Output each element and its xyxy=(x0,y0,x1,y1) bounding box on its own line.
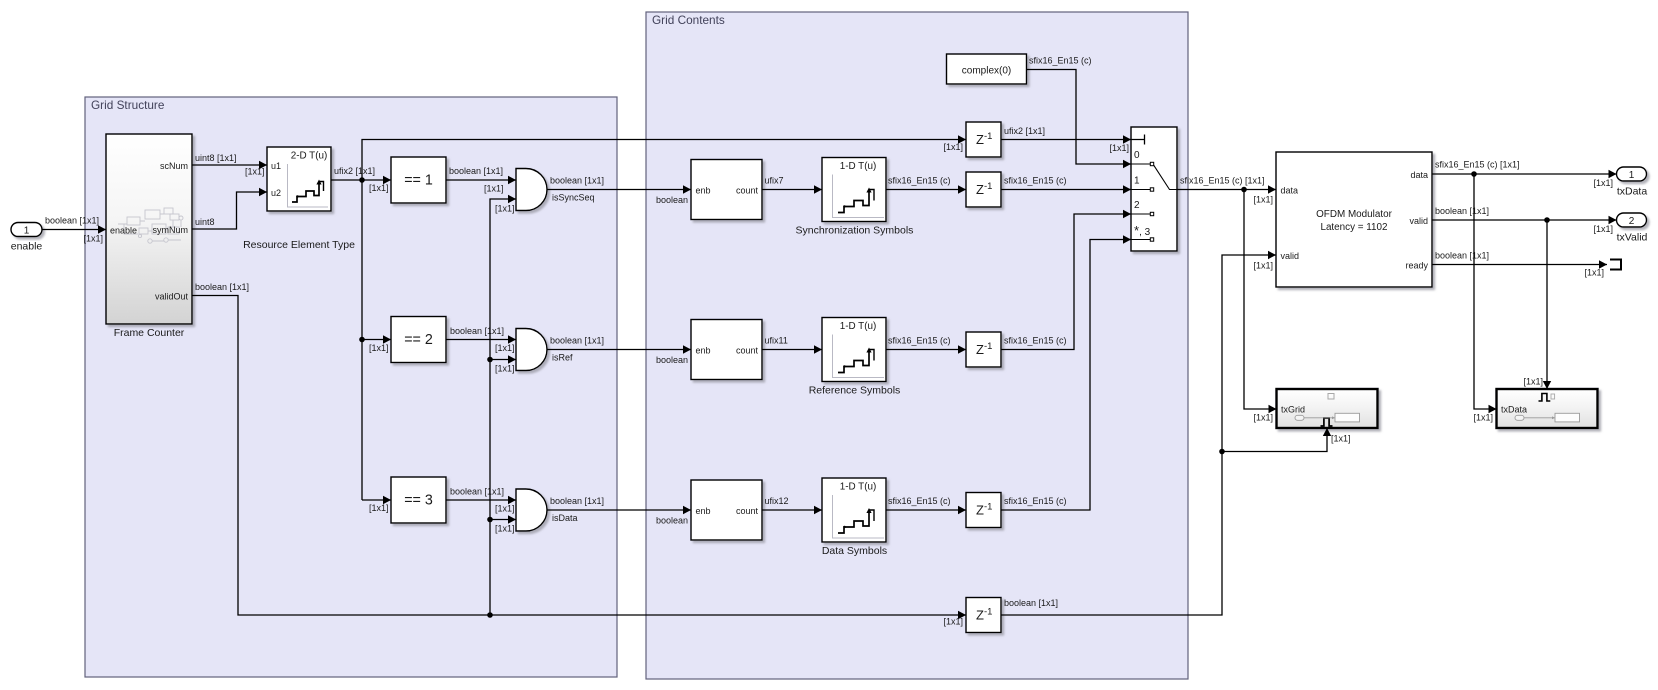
svg-text:boolean [1x1]: boolean [1x1] xyxy=(550,336,604,346)
scope txData xyxy=(1497,389,1598,428)
svg-text:boolean [1x1]: boolean [1x1] xyxy=(550,496,604,506)
svg-text:Grid Structure: Grid Structure xyxy=(91,98,165,112)
block Resource Element Type 2-D T(u) xyxy=(243,147,355,251)
svg-text:complex(0): complex(0) xyxy=(962,65,1011,76)
AND gate isData xyxy=(516,489,547,531)
svg-text:[1x1]: [1x1] xyxy=(943,617,963,627)
wire OFDM valid to txValid outport xyxy=(1432,206,1617,234)
svg-text:sfix16_En15 (c): sfix16_En15 (c) xyxy=(888,176,951,186)
scope txGrid xyxy=(1277,389,1378,428)
block multiport switch xyxy=(1131,127,1177,251)
svg-text:1-D T(u): 1-D T(u) xyxy=(840,321,877,332)
svg-text:ufix12: ufix12 xyxy=(765,496,789,506)
svg-text:sfix16_En15 (c): sfix16_En15 (c) xyxy=(888,496,951,506)
outport 1 txData xyxy=(1617,167,1648,198)
svg-text:count: count xyxy=(736,506,759,516)
svg-text:boolean [1x1]: boolean [1x1] xyxy=(1004,598,1058,608)
svg-text:boolean: boolean xyxy=(656,195,688,205)
svg-text:sfix16_En15 (c): sfix16_En15 (c) xyxy=(888,336,951,346)
wire enable to Frame Counter xyxy=(42,216,106,244)
svg-text:txData: txData xyxy=(1501,405,1527,415)
svg-text:Grid Contents: Grid Contents xyxy=(652,13,725,27)
wire valid branch to txGrid trigger xyxy=(1222,428,1351,452)
block counter (ref) enb/count xyxy=(691,320,762,380)
wire switch output to OFDM data input xyxy=(1177,176,1276,205)
svg-text:2-D T(u): 2-D T(u) xyxy=(291,150,328,161)
block lookup Data Symbols 1-D T(u) xyxy=(822,478,886,542)
svg-text:boolean: boolean xyxy=(656,355,688,365)
block unit delay Z-1 (valid) xyxy=(966,598,1001,633)
block constant complex(0) xyxy=(947,54,1027,84)
svg-text:1-D T(u): 1-D T(u) xyxy=(840,481,877,492)
svg-text:uint8 [1x1]: uint8 [1x1] xyxy=(195,153,237,163)
svg-text:boolean [1x1]: boolean [1x1] xyxy=(195,282,249,292)
inport 1 enable xyxy=(11,223,43,253)
svg-text:u2: u2 xyxy=(271,188,281,198)
svg-text:[1x1]: [1x1] xyxy=(495,343,515,353)
svg-text:uint8: uint8 xyxy=(195,217,215,227)
wire ref delay to switch port 2 xyxy=(1001,210,1131,350)
svg-text:count: count xyxy=(736,185,759,195)
svg-text:[1x1]: [1x1] xyxy=(1109,143,1129,153)
svg-text:sfix16_En15 (c): sfix16_En15 (c) xyxy=(1004,336,1067,346)
svg-text:isData: isData xyxy=(552,513,578,523)
svg-text:valid: valid xyxy=(1281,251,1300,261)
svg-text:OFDM Modulator: OFDM Modulator xyxy=(1316,209,1392,220)
svg-text:0: 0 xyxy=(1134,150,1140,161)
wire switch output branch to txGrid xyxy=(1244,190,1277,423)
wire == 3 output to AND gate xyxy=(446,487,516,514)
wire data lookup to delay xyxy=(886,496,966,514)
svg-text:symNum: symNum xyxy=(153,225,189,235)
svg-text:isSyncSeq: isSyncSeq xyxy=(552,193,595,203)
wire counter ufix7 to sync lookup xyxy=(762,176,822,194)
svg-text:boolean [1x1]: boolean [1x1] xyxy=(1435,206,1489,216)
svg-text:1-D T(u): 1-D T(u) xyxy=(840,161,877,172)
svg-text:1: 1 xyxy=(1134,176,1140,187)
svg-text:[1x1]: [1x1] xyxy=(1253,195,1273,205)
wire counter ufix12 to data lookup xyxy=(762,496,822,514)
svg-text:[1x1]: [1x1] xyxy=(1523,377,1543,387)
svg-text:[1x1]: [1x1] xyxy=(1253,261,1273,271)
svg-text:boolean [1x1]: boolean [1x1] xyxy=(450,487,504,497)
block unit delay Z-1 (ufix2) xyxy=(966,122,1001,157)
svg-text:[1x1]: [1x1] xyxy=(495,364,515,374)
wire top delay to switch control xyxy=(1001,126,1131,153)
svg-text:1: 1 xyxy=(1629,170,1635,181)
svg-text:ufix2 [1x1]: ufix2 [1x1] xyxy=(334,166,375,176)
block counter (data) enb/count xyxy=(691,480,762,540)
svg-text:boolean: boolean xyxy=(656,516,688,526)
wire valid delay to OFDM valid input xyxy=(1001,251,1276,615)
wire data delay to switch port 3 xyxy=(1001,235,1131,510)
AND gate isSyncSeq xyxy=(516,169,547,211)
svg-text:enb: enb xyxy=(696,185,711,195)
area Grid Structure xyxy=(85,97,617,677)
block unit delay Z-1 (data) xyxy=(966,493,1001,528)
svg-text:valid: valid xyxy=(1409,216,1428,226)
svg-text:[1x1]: [1x1] xyxy=(1593,224,1613,234)
svg-text:enable: enable xyxy=(110,225,137,235)
block counter (sync) enb/count xyxy=(691,160,762,220)
svg-text:data: data xyxy=(1410,170,1428,180)
svg-text:[1x1]: [1x1] xyxy=(369,183,389,193)
svg-text:boolean [1x1]: boolean [1x1] xyxy=(1435,251,1489,261)
svg-text:boolean [1x1]: boolean [1x1] xyxy=(45,216,99,226)
svg-text:count: count xyxy=(736,345,759,355)
block unit delay Z-1 (sync) xyxy=(966,172,1001,207)
block compare == 3 xyxy=(391,477,446,523)
wire isSyncSeq to counter xyxy=(547,176,691,206)
block lookup Synchronization Symbols 1-D T(u) xyxy=(822,158,886,222)
svg-text:scNum: scNum xyxy=(160,161,188,171)
wire isRef to counter xyxy=(547,336,691,366)
svg-text:== 3: == 3 xyxy=(404,493,433,509)
wire OFDM ready to terminator xyxy=(1432,251,1607,278)
svg-text:sfix16_En15 (c): sfix16_En15 (c) xyxy=(1004,496,1067,506)
svg-text:[1x1]: [1x1] xyxy=(1253,413,1273,423)
svg-text:txValid: txValid xyxy=(1617,232,1648,244)
AND gate isRef xyxy=(516,329,547,371)
svg-text:[1x1]: [1x1] xyxy=(495,524,515,534)
svg-text:u1: u1 xyxy=(271,161,281,171)
svg-text:[1x1]: [1x1] xyxy=(245,167,265,177)
terminator (ready) xyxy=(1610,260,1621,270)
svg-text:boolean [1x1]: boolean [1x1] xyxy=(550,176,604,186)
svg-text:txData: txData xyxy=(1617,186,1648,198)
svg-text:isRef: isRef xyxy=(552,353,573,363)
svg-text:[1x1]: [1x1] xyxy=(1593,178,1613,188)
svg-text:[1x1]: [1x1] xyxy=(495,504,515,514)
area Grid Contents xyxy=(646,12,1188,679)
wire complex(0) to switch port 0 xyxy=(1027,56,1132,169)
svg-text:[1x1]: [1x1] xyxy=(1584,268,1604,278)
svg-text:[1x1]: [1x1] xyxy=(369,343,389,353)
block Frame Counter xyxy=(106,134,192,339)
svg-text:1: 1 xyxy=(24,225,30,236)
svg-text:enable: enable xyxy=(11,241,43,253)
wire symNum to u2 xyxy=(192,188,267,229)
block compare == 1 xyxy=(391,157,446,203)
svg-text:enb: enb xyxy=(696,506,711,516)
svg-text:sfix16_En15 (c): sfix16_En15 (c) xyxy=(1004,176,1067,186)
svg-text:Latency = 1102: Latency = 1102 xyxy=(1320,222,1387,233)
svg-text:ready: ready xyxy=(1405,260,1428,270)
wire OFDM data to txData outport xyxy=(1432,160,1617,189)
svg-text:ufix7: ufix7 xyxy=(765,176,784,186)
svg-text:[1x1]: [1x1] xyxy=(943,142,963,152)
svg-text:boolean [1x1]: boolean [1x1] xyxy=(450,326,504,336)
svg-text:ufix11: ufix11 xyxy=(765,336,788,346)
svg-text:Synchronization Symbols: Synchronization Symbols xyxy=(796,225,914,237)
svg-text:== 1: == 1 xyxy=(404,173,433,189)
block compare == 2 xyxy=(391,317,446,363)
wire sync delay to switch port 1 xyxy=(1001,176,1131,194)
wire ufix2 branch down to == 2 and == 3 xyxy=(359,180,391,513)
svg-text:Frame Counter: Frame Counter xyxy=(114,327,185,339)
wire counter ufix11 to ref lookup xyxy=(762,336,822,354)
svg-text:Resource Element Type: Resource Element Type xyxy=(243,239,355,251)
wire scNum to u1 xyxy=(192,153,267,177)
svg-text:2: 2 xyxy=(1134,200,1140,211)
wire ref lookup to delay xyxy=(886,336,966,354)
svg-text:validOut: validOut xyxy=(155,291,189,301)
wire isData to counter xyxy=(547,496,691,526)
svg-text:txGrid: txGrid xyxy=(1281,405,1305,415)
wire validOut to bottom delay xyxy=(192,282,966,627)
wire == 2 output to AND gate xyxy=(446,326,516,353)
wire ufix2 to == 1 xyxy=(331,166,391,193)
block OFDM Modulator xyxy=(1276,152,1432,287)
svg-text:enb: enb xyxy=(696,345,711,355)
svg-text:[1x1]: [1x1] xyxy=(1473,413,1493,423)
svg-text:Reference Symbols: Reference Symbols xyxy=(809,385,901,397)
wire == 1 output to AND gate xyxy=(446,166,516,194)
svg-text:[1x1]: [1x1] xyxy=(495,204,515,214)
svg-text:sfix16_En15 (c): sfix16_En15 (c) xyxy=(1029,56,1092,66)
block lookup Reference Symbols 1-D T(u) xyxy=(822,318,886,382)
svg-text:data: data xyxy=(1281,185,1299,195)
wire valid feed to AND gate second inputs xyxy=(487,195,516,615)
svg-text:ufix2 [1x1]: ufix2 [1x1] xyxy=(1004,126,1045,136)
svg-text:[1x1]: [1x1] xyxy=(369,503,389,513)
svg-text:sfix16_En15 (c) [1x1]: sfix16_En15 (c) [1x1] xyxy=(1435,160,1520,170)
svg-text:[1x1]: [1x1] xyxy=(1331,434,1351,444)
svg-text:[1x1]: [1x1] xyxy=(484,184,504,194)
wire OFDM valid branch to txData trigger xyxy=(1523,220,1551,389)
svg-text:[1x1]: [1x1] xyxy=(83,234,103,244)
svg-text:sfix16_En15 (c) [1x1]: sfix16_En15 (c) [1x1] xyxy=(1180,176,1265,186)
svg-text:boolean [1x1]: boolean [1x1] xyxy=(449,166,503,176)
svg-text:== 2: == 2 xyxy=(404,332,433,348)
outport 2 txValid xyxy=(1617,213,1648,244)
wire sync lookup to delay xyxy=(886,176,966,194)
wire ufix2 branch up to top delay xyxy=(362,135,966,180)
svg-text:Data Symbols: Data Symbols xyxy=(822,545,887,557)
svg-text:2: 2 xyxy=(1629,216,1635,227)
wire OFDM data branch to txData scope xyxy=(1473,174,1496,423)
block unit delay Z-1 (ref) xyxy=(966,332,1001,367)
